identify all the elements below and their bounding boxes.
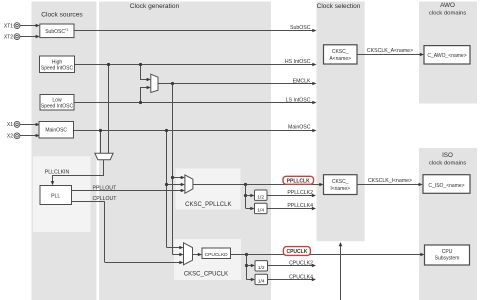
svg-text:CPUCLK2: CPUCLK2 [289,261,313,267]
svg-text:ISO: ISO [442,152,453,159]
svg-text:XT2: XT2 [4,34,13,40]
svg-text:Subsystem: Subsystem [435,256,460,262]
svg-text:C_ISO_<name>: C_ISO_<name> [428,183,464,189]
svg-text:clock domains: clock domains [429,11,466,17]
svg-text:clock domains: clock domains [429,160,466,166]
svg-text:C_AWO_<name>: C_AWO_<name> [427,53,466,59]
svg-text:CPUCLKD: CPUCLKD [205,252,228,258]
svg-text:Clock selection: Clock selection [317,3,361,10]
svg-text:1/4: 1/4 [258,279,265,285]
svg-text:I<name>: I<name> [330,186,350,192]
svg-text:X1: X1 [7,122,13,128]
svg-text:SubOSC*1: SubOSC*1 [45,28,68,35]
svg-text:A<name>: A<name> [329,56,351,62]
svg-text:PPLLCLK4: PPLLCLK4 [287,203,313,209]
svg-text:CKSCLK_A<name>: CKSCLK_A<name> [367,48,413,54]
svg-text:EMCLK: EMCLK [293,79,311,85]
svg-text:Speed IntOSC: Speed IntOSC [41,65,74,71]
svg-text:PLL: PLL [51,194,60,200]
svg-text:CKSC_PPLLCLK: CKSC_PPLLCLK [185,202,231,208]
svg-text:CKSCLK_I<name>: CKSCLK_I<name> [368,178,412,184]
svg-text:XT1: XT1 [4,23,13,29]
svg-text:CKSC_: CKSC_ [332,49,349,55]
svg-text:SubOSC: SubOSC [290,25,311,31]
svg-text:CPLLOUT: CPLLOUT [93,196,118,202]
svg-text:CPUCLK: CPUCLK [286,249,307,255]
svg-text:CPU: CPU [442,249,453,255]
svg-text:PPLLCLK2: PPLLCLK2 [287,190,313,196]
svg-text:PPLLOUT: PPLLOUT [93,185,117,191]
svg-text:PPLLCLK: PPLLCLK [287,178,310,184]
svg-text:Speed IntOSC: Speed IntOSC [41,103,74,109]
svg-text:CKSC_CPUCLK: CKSC_CPUCLK [184,272,228,278]
svg-text:CKSC_: CKSC_ [332,179,349,185]
svg-text:PLLCLKIN: PLLCLKIN [45,169,70,175]
svg-text:MainOSC: MainOSC [45,128,67,134]
svg-text:HS IntOSC: HS IntOSC [285,59,311,65]
svg-text:CPUCLK4: CPUCLK4 [289,274,313,280]
svg-text:AWO: AWO [440,2,455,9]
svg-text:1/2: 1/2 [257,194,264,200]
svg-text:Clock generation: Clock generation [130,3,180,10]
svg-text:Clock sources: Clock sources [41,12,83,19]
svg-text:X2: X2 [7,134,13,140]
svg-text:MainOSC: MainOSC [288,125,311,131]
svg-text:LS IntOSC: LS IntOSC [286,98,311,104]
svg-text:1/4: 1/4 [257,208,264,214]
svg-text:1/2: 1/2 [258,265,265,271]
